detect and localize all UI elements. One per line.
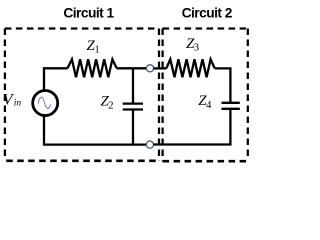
- source V_in: [33, 91, 58, 116]
- capacitor Z4: [222, 103, 240, 109]
- resistor Z3: [166, 59, 214, 77]
- capacitor Z2: [123, 104, 143, 110]
- svg-text:in: in: [14, 99, 22, 109]
- svg-text:3: 3: [194, 42, 199, 53]
- wire Z2 upper lead: [132, 68, 134, 103]
- resistor Z1: [68, 59, 117, 77]
- dashed box Circuit 2: [163, 29, 248, 162]
- svg-text:1: 1: [95, 45, 100, 56]
- wire Z1 to node A: [117, 67, 147, 69]
- wire V_in top to Z1: [44, 68, 68, 91]
- sine wave: [38, 97, 50, 108]
- svg-text:Circuit 1: Circuit 1: [63, 6, 114, 21]
- node A: [146, 65, 153, 72]
- svg-text:Circuit 2: Circuit 2: [182, 6, 233, 21]
- wire node A to Z3: [153, 67, 166, 69]
- wire Z3 to Z4: [215, 68, 231, 102]
- node B: [146, 141, 153, 148]
- wire Z2 lower lead: [132, 110, 134, 145]
- dashed box Circuit 1: [5, 29, 159, 161]
- svg-text:2: 2: [108, 101, 113, 112]
- svg-text:4: 4: [206, 100, 212, 111]
- wire V_in bottom to node B: [44, 115, 147, 145]
- wire Z4 lower lead to node B: [153, 109, 230, 145]
